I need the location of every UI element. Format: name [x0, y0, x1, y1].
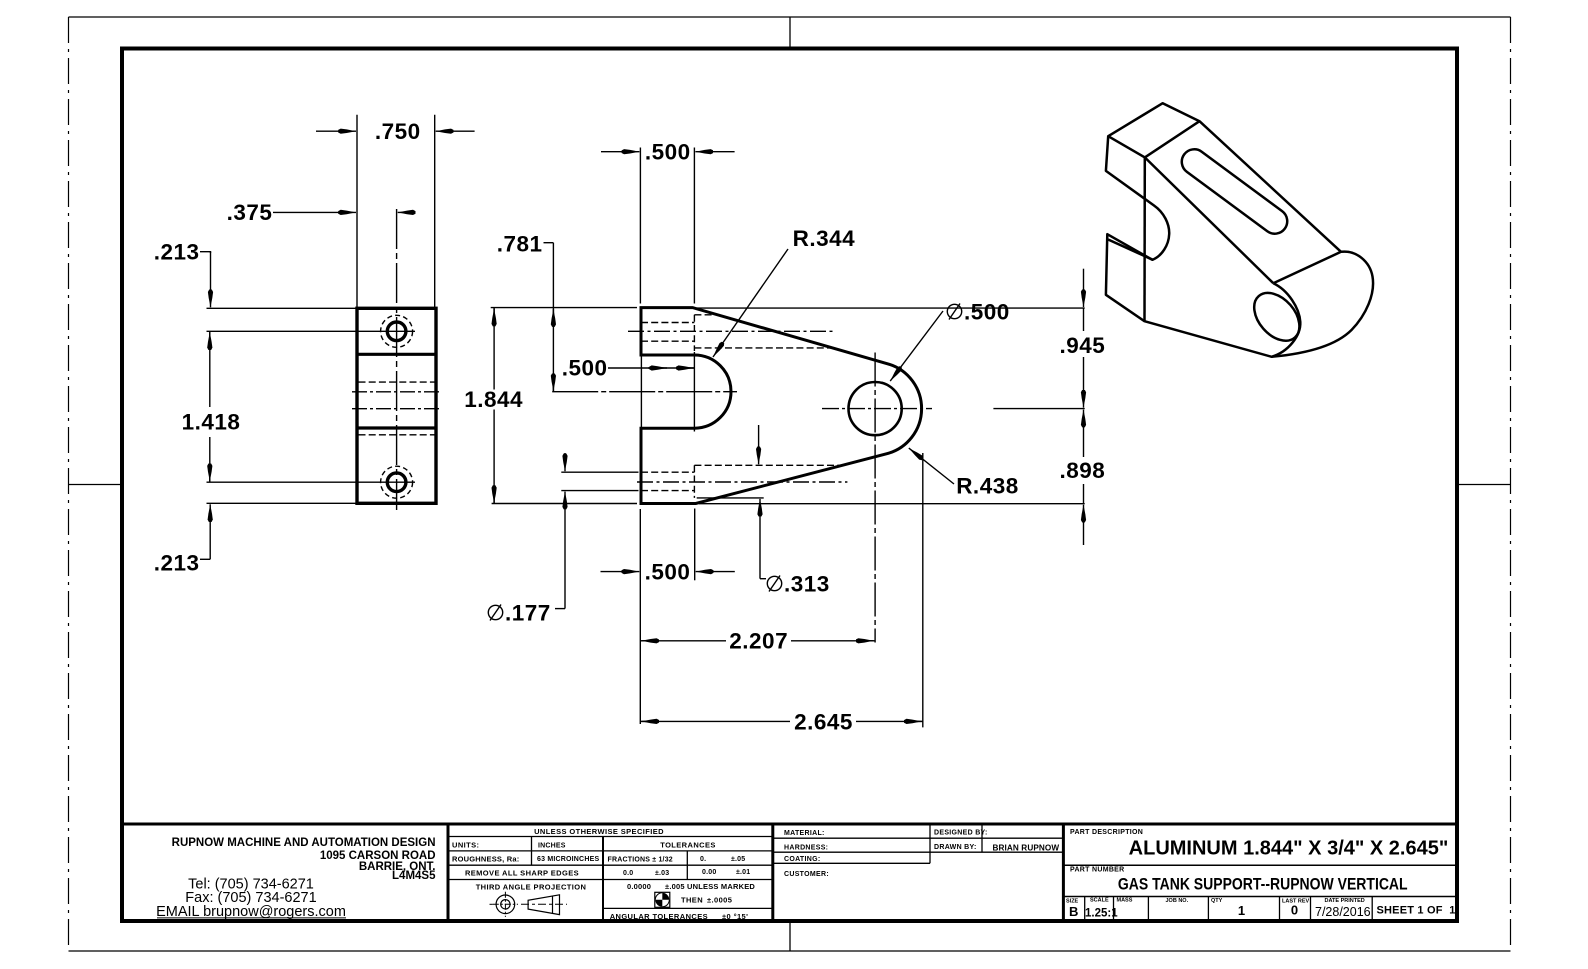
svg-text:DRAWN BY:: DRAWN BY:	[934, 844, 977, 851]
svg-text:ROUGHNESS, Ra:: ROUGHNESS, Ra:	[452, 855, 519, 864]
sharp edges row underline	[448, 879, 773, 881]
dim 2.645	[640, 720, 790, 722]
svg-text:PART DESCRIPTION: PART DESCRIPTION	[1070, 829, 1143, 836]
thin outer border right dash-dot	[1510, 17, 1512, 951]
tolerances column divider	[602, 837, 604, 922]
mid .500 extension line	[640, 351, 642, 432]
svg-text:0.0: 0.0	[623, 870, 633, 877]
svg-text:.500: .500	[964, 300, 1010, 325]
LEFT SIDE VIEW	[200, 115, 475, 560]
svg-text:1.418: 1.418	[182, 410, 241, 435]
svg-text:2.207: 2.207	[729, 628, 788, 653]
svg-text:MATERIAL:: MATERIAL:	[784, 830, 825, 837]
svg-text:.945: .945	[1060, 333, 1106, 358]
svg-text:63 MICROINCHES: 63 MICROINCHES	[537, 856, 599, 863]
dim .781	[544, 242, 554, 244]
iso round end near arc	[1272, 283, 1301, 357]
svg-text:B: B	[1069, 904, 1078, 919]
svg-text:±0 °15': ±0 °15'	[722, 912, 748, 921]
svg-text:SCALE: SCALE	[1090, 898, 1109, 904]
iso slotted hole on sloped face	[1182, 149, 1287, 233]
hidden lines lower tapped hole	[641, 471, 694, 473]
svg-text:ALUMINUM 1.844" X 3/4" X 2.645: ALUMINUM 1.844" X 3/4" X 2.645"	[1129, 838, 1449, 860]
left view outline	[357, 308, 436, 503]
svg-text:.213: .213	[154, 240, 200, 265]
thin outer border left dash-dot	[68, 17, 70, 951]
job/qty divider	[1207, 897, 1209, 922]
drawn-by value divider	[981, 824, 983, 852]
svg-text:±.01: ±.01	[736, 869, 750, 876]
upper tapped hole	[387, 322, 406, 341]
divider company/specified	[447, 824, 450, 921]
FRONT VIEW	[491, 148, 1085, 728]
svg-text:0.0000: 0.0000	[627, 882, 651, 891]
hidden line upper hole bottom	[693, 315, 695, 351]
upper tapped hole thread circle	[381, 315, 413, 347]
coating row underline	[773, 862, 930, 864]
svg-text:.898: .898	[1060, 458, 1106, 483]
dim .750 arrows	[316, 130, 356, 132]
extension line top edge	[207, 307, 358, 309]
extension line lower hole center	[207, 481, 416, 483]
iso silhouette	[1106, 103, 1373, 357]
dim 2.207	[640, 640, 726, 642]
units/inches divider	[531, 837, 533, 866]
dim 1.418	[209, 332, 211, 344]
dim .898	[1083, 410, 1085, 422]
size/scale divider	[1084, 897, 1086, 922]
slot top edge	[357, 353, 436, 356]
iso sloped face near edge	[1145, 157, 1274, 283]
angular tolerances row top line	[603, 907, 773, 909]
right center tick	[1457, 484, 1511, 486]
iso front-left vertical edge	[1143, 157, 1146, 321]
thin outer border bottom	[69, 950, 1511, 952]
svg-text:GAS TANK SUPPORT--RUPNOW VERTI: GAS TANK SUPPORT--RUPNOW VERTICAL	[1118, 875, 1408, 894]
extension bottom right	[699, 503, 1085, 505]
svg-text:.781: .781	[497, 232, 543, 257]
svg-text:SHEET 1 OF 1: SHEET 1 OF 1	[1377, 905, 1456, 917]
leader R.344	[713, 249, 788, 357]
hidden hole top edge	[359, 381, 435, 383]
divider material/part-description	[1062, 824, 1065, 921]
svg-text:UNITS:: UNITS:	[452, 841, 479, 850]
hidden line lower hole bottom	[693, 465, 695, 498]
lower tapped hole	[387, 473, 406, 492]
svg-text:±.0005: ±.0005	[707, 895, 732, 904]
ISOMETRIC VIEW	[1106, 103, 1373, 357]
dim .213 bottom leader	[200, 558, 210, 560]
part description row underline	[1063, 864, 1457, 866]
part number row underline	[1063, 896, 1457, 898]
email underline	[157, 917, 346, 919]
svg-text:REMOVE ALL SHARP EDGES: REMOVE ALL SHARP EDGES	[465, 869, 579, 878]
top center tick	[789, 17, 791, 49]
slot center line horizontal	[552, 391, 737, 393]
tolerance cells divider	[686, 851, 688, 880]
left center tick	[69, 484, 123, 486]
hidden lines lower clearance hole	[694, 464, 842, 466]
svg-text:ANGULAR TOLERANCES: ANGULAR TOLERANCES	[610, 912, 708, 921]
svg-text:BRIAN RUPNOW: BRIAN RUPNOW	[993, 844, 1060, 853]
svg-text:.750: .750	[375, 119, 421, 144]
dia .177 extension lines	[561, 471, 638, 473]
svg-text:RUPNOW MACHINE AND AUTOMATION: RUPNOW MACHINE AND AUTOMATION DESIGN	[172, 837, 436, 849]
svg-text:JOB NO.: JOB NO.	[1166, 898, 1189, 904]
extension top right	[697, 307, 1085, 309]
svg-text:.500: .500	[562, 356, 608, 381]
date/sheet divider	[1371, 897, 1373, 922]
svg-text:QTY: QTY	[1211, 898, 1223, 904]
thick inner border	[122, 49, 1457, 922]
dim text dia .177	[488, 601, 550, 626]
dim 1.844	[493, 308, 495, 390]
title block top line	[122, 823, 1457, 826]
slot bottom edge	[357, 426, 436, 429]
thin outer border top	[69, 16, 1511, 18]
svg-text:THIRD ANGLE PROJECTION: THIRD ANGLE PROJECTION	[476, 883, 587, 892]
third angle projection symbol	[490, 892, 568, 917]
leader dia .500	[890, 311, 943, 381]
roughness row underline	[448, 864, 773, 866]
scale/mass divider	[1113, 897, 1115, 922]
lower tapped hole thread circle	[381, 466, 413, 498]
TITLE BLOCK TEXT	[156, 827, 1455, 921]
svg-text:±.005 UNLESS MARKED: ±.005 UNLESS MARKED	[665, 882, 755, 891]
hole center line vertical + 2.207 extension	[874, 353, 876, 643]
dim text dia .313	[767, 572, 829, 597]
units row underline	[448, 850, 773, 852]
iso top face edges	[1108, 121, 1199, 157]
dia .177 arrows	[564, 453, 566, 471]
svg-text:±.03: ±.03	[655, 870, 669, 877]
svg-text:R.344: R.344	[793, 226, 856, 251]
svg-text:DATE PRINTED: DATE PRINTED	[1325, 898, 1365, 904]
svg-text:.177: .177	[505, 601, 551, 626]
iso slot floor sliver edge	[1108, 240, 1153, 260]
lower hole center line	[637, 481, 847, 483]
extension line bottom edge	[207, 502, 358, 504]
dim text dia .500	[947, 300, 1009, 325]
front view outline	[641, 308, 922, 504]
extension line upper hole center	[207, 330, 416, 332]
svg-text:COATING:: COATING:	[784, 856, 821, 863]
svg-text:.500: .500	[645, 140, 691, 165]
svg-text:0: 0	[1291, 903, 1298, 918]
svg-text:1.844: 1.844	[464, 387, 523, 412]
leader R.438	[909, 448, 954, 484]
svg-text:FRACTIONS ± 1/32: FRACTIONS ± 1/32	[608, 857, 673, 864]
svg-text:.375: .375	[227, 200, 273, 225]
checkered target symbol	[655, 892, 670, 907]
top .500 extension lines	[639, 148, 641, 304]
bottom .500 extension line	[694, 509, 696, 581]
svg-text:1.25:1: 1.25:1	[1085, 908, 1118, 920]
hole center line horizontal	[822, 408, 932, 410]
svg-text:TOLERANCES: TOLERANCES	[660, 841, 716, 850]
dia .313 arrows	[758, 425, 760, 464]
svg-text:±.05: ±.05	[731, 856, 745, 863]
svg-text:R.438: R.438	[956, 474, 1019, 499]
extension bottom left	[492, 503, 637, 505]
svg-text:.500: .500	[645, 559, 691, 584]
lastrev/date divider	[1310, 897, 1312, 922]
slot center line vertical	[693, 352, 695, 432]
dim .375 arrows	[273, 211, 356, 213]
vertical center line	[396, 209, 398, 510]
designed-by column divider	[929, 824, 931, 863]
dim .750 extension lines	[356, 115, 358, 308]
iso round hole ellipse	[1245, 284, 1308, 349]
iso fold sloped/round	[1273, 252, 1341, 283]
mid .500 leader and arrows	[608, 367, 694, 369]
svg-text:THEN: THEN	[681, 895, 703, 904]
svg-text:PART NUMBER: PART NUMBER	[1070, 867, 1125, 874]
extension top left	[491, 307, 637, 309]
slot center line	[352, 391, 441, 393]
bottom .500 arrows	[601, 571, 640, 573]
hole center line	[352, 408, 441, 410]
hole circle	[849, 382, 902, 435]
svg-text:HARDNESS:: HARDNESS:	[784, 845, 828, 852]
dim .213 top leader	[200, 252, 211, 253]
specified header underline	[448, 836, 773, 838]
bottom dims extension line left	[639, 509, 641, 724]
svg-text:.313: .313	[784, 572, 830, 597]
material row underline	[773, 837, 1064, 839]
hardness row underline	[773, 851, 1064, 853]
svg-text:UNLESS OTHERWISE SPECIFIED: UNLESS OTHERWISE SPECIFIED	[534, 827, 664, 836]
bottom center tick	[789, 921, 791, 951]
top .500 arrows	[601, 151, 639, 153]
svg-text:2.645: 2.645	[794, 709, 853, 734]
svg-text:0.00: 0.00	[702, 869, 716, 876]
qty/lastrev divider	[1279, 897, 1281, 922]
svg-text:1: 1	[1238, 903, 1245, 918]
svg-text:.213: .213	[154, 551, 200, 576]
svg-text:L4M4S5: L4M4S5	[392, 870, 436, 882]
upper hole center line	[628, 330, 835, 332]
divider specified/material	[771, 824, 774, 921]
hidden hole bottom edge	[359, 434, 435, 436]
svg-text:0.: 0.	[700, 856, 706, 863]
2.645 extension line right	[922, 453, 924, 727]
hidden lines upper tapped hole	[641, 322, 694, 324]
dim .945	[1083, 269, 1085, 307]
svg-text:DESIGNED BY:: DESIGNED BY:	[934, 830, 988, 837]
hidden lines upper clearance hole	[694, 314, 717, 316]
svg-text:MASS: MASS	[1117, 898, 1133, 904]
svg-text:CUSTOMER:: CUSTOMER:	[784, 871, 829, 878]
svg-text:7/28/2016: 7/28/2016	[1315, 905, 1371, 919]
svg-text:INCHES: INCHES	[538, 843, 566, 850]
mass/job divider	[1147, 897, 1149, 922]
TITLE BLOCK GRID	[122, 824, 1457, 921]
extension hole center right	[993, 408, 1084, 410]
